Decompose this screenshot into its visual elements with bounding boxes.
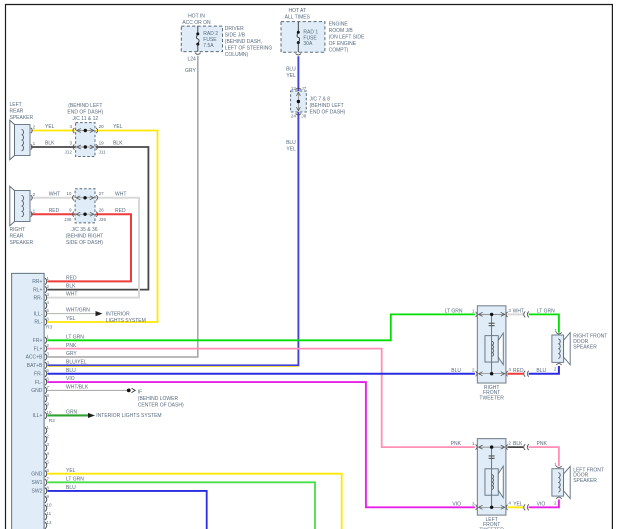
svg-text:7: 7	[46, 385, 49, 390]
svg-text:4: 4	[69, 124, 72, 129]
svg-text:YEL: YEL	[66, 468, 76, 474]
svg-text:PNK: PNK	[66, 343, 77, 349]
svg-text:1: 1	[472, 441, 475, 446]
svg-text:GRY: GRY	[185, 68, 196, 74]
svg-text:RR-: RR-	[34, 295, 43, 301]
svg-text:RR+: RR+	[32, 279, 42, 285]
svg-text:2: 2	[46, 284, 49, 289]
svg-text:3: 3	[46, 292, 49, 297]
svg-text:FR+: FR+	[33, 338, 43, 344]
svg-text:2: 2	[33, 192, 36, 197]
svg-text:3: 3	[69, 141, 72, 146]
svg-text:HOT AT: HOT AT	[288, 8, 306, 14]
svg-text:LIGHTS SYSTEM: LIGHTS SYSTEM	[106, 318, 146, 324]
svg-text:26: 26	[99, 208, 105, 213]
svg-text:RIGHT: RIGHT	[10, 227, 26, 233]
svg-text:REAR: REAR	[10, 234, 24, 240]
svg-text:END OF DASH): END OF DASH)	[67, 110, 103, 116]
svg-text:9: 9	[46, 494, 49, 499]
svg-text:YEL: YEL	[513, 501, 523, 507]
svg-text:19: 19	[99, 141, 105, 146]
svg-text:END OF DASH): END OF DASH)	[310, 110, 346, 116]
svg-text:DRIVER: DRIVER	[225, 26, 244, 32]
svg-text:9: 9	[46, 402, 49, 407]
svg-text:J36: J36	[64, 217, 72, 222]
svg-text:(BEHIND DASH,: (BEHIND DASH,	[225, 39, 262, 45]
svg-text:2: 2	[33, 125, 36, 130]
svg-text:J12: J12	[65, 150, 73, 155]
svg-text:(BEHIND LEFT: (BEHIND LEFT	[310, 103, 344, 109]
svg-text:2: 2	[554, 500, 557, 505]
svg-text:J/C 11 & 12: J/C 11 & 12	[72, 116, 98, 122]
svg-text:YEL: YEL	[66, 316, 76, 322]
svg-text:BLU: BLU	[536, 368, 546, 374]
svg-text:1: 1	[472, 308, 475, 313]
svg-text:BLU: BLU	[66, 368, 76, 374]
svg-text:4: 4	[46, 360, 49, 365]
svg-text:WHT/GRN: WHT/GRN	[66, 308, 90, 314]
svg-text:(BEHIND RIGHT: (BEHIND RIGHT	[66, 234, 104, 240]
svg-text:BLU: BLU	[66, 485, 76, 491]
svg-text:ILL-: ILL-	[34, 311, 43, 317]
svg-text:J8: J8	[301, 114, 306, 119]
svg-text:1: 1	[33, 141, 36, 146]
svg-text:2: 2	[46, 434, 49, 439]
svg-text:SPEAKER: SPEAKER	[573, 478, 597, 484]
svg-text:10: 10	[46, 503, 52, 508]
svg-text:IF: IF	[138, 389, 142, 395]
svg-text:RED: RED	[513, 368, 524, 374]
svg-text:ENGINE: ENGINE	[329, 22, 349, 28]
svg-text:3: 3	[46, 442, 49, 447]
svg-text:5: 5	[46, 368, 49, 373]
svg-text:BAT+B: BAT+B	[27, 363, 43, 369]
svg-text:BLU: BLU	[286, 67, 296, 73]
svg-text:PNK: PNK	[451, 441, 462, 447]
svg-text:(ON LEFT SIDE: (ON LEFT SIDE	[329, 35, 365, 41]
svg-text:2: 2	[508, 441, 511, 446]
svg-text:SW1: SW1	[32, 480, 43, 486]
svg-text:24: 24	[291, 114, 297, 119]
svg-text:RED: RED	[66, 276, 77, 282]
svg-text:5: 5	[46, 459, 49, 464]
svg-text:PNK: PNK	[537, 441, 548, 447]
svg-text:1: 1	[554, 462, 557, 467]
svg-text:RED: RED	[115, 208, 126, 214]
svg-text:FL-: FL-	[35, 380, 43, 386]
svg-text:SPEAKER: SPEAKER	[10, 115, 34, 121]
svg-text:INTERIOR: INTERIOR	[106, 312, 130, 318]
svg-text:J35: J35	[99, 217, 107, 222]
svg-text:20: 20	[99, 124, 105, 129]
svg-text:J7: J7	[301, 86, 306, 91]
svg-text:HOT IN: HOT IN	[188, 14, 205, 20]
svg-text:VIO: VIO	[537, 501, 546, 507]
svg-text:WHT: WHT	[513, 309, 524, 315]
svg-text:RL+: RL+	[33, 287, 42, 293]
svg-text:BLU: BLU	[286, 140, 296, 146]
svg-text:COMPT): COMPT)	[329, 48, 349, 54]
svg-text:SW2: SW2	[32, 489, 43, 495]
svg-text:J/C 7 & 8: J/C 7 & 8	[310, 97, 331, 103]
svg-text:ROOM J/B: ROOM J/B	[329, 28, 354, 34]
svg-text:J/C 35 & 36: J/C 35 & 36	[71, 227, 97, 233]
svg-text:SPEAKER: SPEAKER	[573, 344, 597, 350]
svg-text:LT GRN: LT GRN	[537, 309, 555, 315]
svg-text:REAR: REAR	[10, 109, 24, 115]
svg-text:WHT: WHT	[115, 191, 126, 197]
svg-text:LT GRN: LT GRN	[445, 309, 463, 315]
svg-text:YEL: YEL	[45, 124, 55, 130]
svg-text:ILL+: ILL+	[33, 413, 43, 419]
svg-text:GND: GND	[31, 471, 43, 477]
svg-text:ALL TIMES: ALL TIMES	[285, 14, 311, 20]
svg-text:10: 10	[46, 410, 52, 415]
svg-text:6: 6	[46, 316, 49, 321]
svg-text:1: 1	[46, 335, 49, 340]
svg-text:4: 4	[46, 451, 49, 456]
svg-text:SIDE OF DASH): SIDE OF DASH)	[66, 240, 103, 246]
svg-text:L24: L24	[187, 57, 196, 63]
svg-text:BLU/YEL: BLU/YEL	[66, 359, 87, 365]
svg-text:ACC+B: ACC+B	[26, 355, 43, 361]
svg-text:3: 3	[472, 501, 475, 506]
svg-text:6: 6	[46, 468, 49, 473]
svg-text:4: 4	[508, 367, 511, 372]
svg-text:2: 2	[554, 367, 557, 372]
svg-text:(BEHIND LEFT: (BEHIND LEFT	[68, 103, 102, 109]
svg-text:11: 11	[46, 511, 51, 516]
svg-text:4: 4	[508, 501, 511, 506]
svg-text:BLU: BLU	[451, 368, 461, 374]
svg-text:BLK: BLK	[113, 141, 123, 147]
svg-text:YEL: YEL	[286, 73, 296, 79]
svg-text:1: 1	[33, 208, 36, 213]
svg-text:OF ENGINE: OF ENGINE	[329, 41, 357, 47]
svg-text:LEFT: LEFT	[10, 102, 22, 108]
svg-text:RL-: RL-	[34, 320, 42, 326]
svg-text:J11: J11	[99, 150, 107, 155]
svg-text:27: 27	[99, 191, 105, 196]
svg-text:GND: GND	[31, 388, 43, 394]
svg-text:3: 3	[46, 351, 49, 356]
svg-text:FL+: FL+	[34, 346, 43, 352]
svg-text:10: 10	[66, 191, 72, 196]
svg-text:R2: R2	[49, 418, 55, 424]
svg-text:YEL: YEL	[113, 124, 123, 130]
svg-text:SIDE J/B: SIDE J/B	[225, 33, 246, 39]
svg-text:1: 1	[554, 328, 557, 333]
svg-text:R3: R3	[46, 325, 52, 331]
svg-text:RED: RED	[49, 208, 60, 214]
svg-text:3: 3	[508, 308, 511, 313]
svg-text:BLK: BLK	[513, 441, 523, 447]
svg-text:LT GRN: LT GRN	[66, 476, 84, 482]
svg-text:7: 7	[46, 477, 49, 482]
svg-text:COLUMN): COLUMN)	[225, 52, 249, 58]
svg-text:8: 8	[46, 485, 49, 490]
svg-text:LT GRN: LT GRN	[66, 334, 84, 340]
svg-text:TWEETER: TWEETER	[479, 395, 504, 401]
svg-text:4: 4	[46, 300, 49, 305]
svg-text:SPEAKER: SPEAKER	[10, 240, 34, 246]
svg-text:BLK: BLK	[66, 284, 76, 290]
svg-text:5: 5	[46, 308, 49, 313]
svg-text:6: 6	[46, 376, 49, 381]
svg-text:GRY: GRY	[66, 351, 77, 357]
svg-text:INTERIOR LIGHTS SYSTEM: INTERIOR LIGHTS SYSTEM	[96, 413, 161, 419]
svg-text:WHT: WHT	[49, 191, 60, 197]
svg-text:(BEHIND LOWER: (BEHIND LOWER	[138, 396, 179, 402]
svg-text:YEL: YEL	[286, 147, 296, 153]
svg-text:2: 2	[46, 343, 49, 348]
svg-text:12: 12	[291, 86, 297, 91]
svg-text:12: 12	[46, 520, 52, 525]
svg-text:30A: 30A	[303, 41, 313, 47]
svg-text:FR-: FR-	[34, 371, 43, 377]
svg-text:WHT: WHT	[66, 292, 77, 298]
svg-text:1: 1	[46, 276, 49, 281]
svg-text:7.5A: 7.5A	[203, 43, 214, 49]
svg-text:2: 2	[472, 368, 475, 373]
svg-text:VIO: VIO	[452, 501, 461, 507]
svg-text:GRN: GRN	[66, 410, 78, 416]
svg-text:WHT/BLK: WHT/BLK	[66, 385, 89, 391]
svg-text:CENTER OF DASH): CENTER OF DASH)	[138, 402, 184, 408]
svg-text:ACC OR ON: ACC OR ON	[182, 20, 211, 26]
svg-text:BLK: BLK	[45, 141, 55, 147]
svg-text:LEFT OF STEERING: LEFT OF STEERING	[225, 46, 273, 52]
svg-text:1: 1	[46, 425, 49, 430]
svg-text:9: 9	[69, 208, 72, 213]
svg-text:8: 8	[46, 393, 49, 398]
svg-text:VIO: VIO	[66, 376, 75, 382]
